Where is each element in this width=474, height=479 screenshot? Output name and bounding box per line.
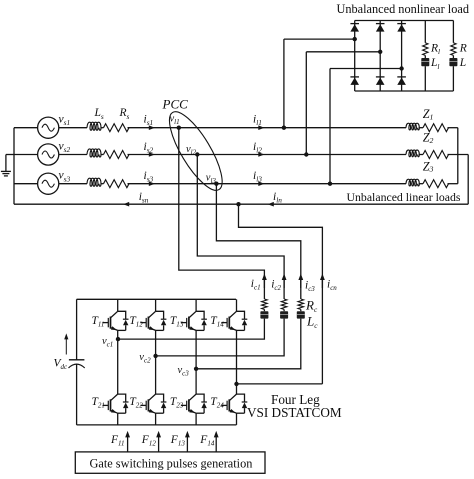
node tap c <box>328 182 332 186</box>
inductor Z1 coil <box>406 123 419 130</box>
wire phase a main <box>128 127 407 129</box>
svg-text:Gate switching pulses generati: Gate switching pulses generation <box>90 457 253 471</box>
wire icn branch to leg4 <box>237 383 323 385</box>
resistor Rc <box>262 299 268 309</box>
arrow F14 <box>215 433 217 452</box>
arrow il3 <box>258 181 264 186</box>
arrow is3 <box>149 181 155 186</box>
arrow ic2 <box>283 276 285 289</box>
resistor Z2 <box>423 151 449 159</box>
wire leg2 mid2 <box>155 356 157 394</box>
wire leg2 top <box>155 299 157 311</box>
diode D1b <box>350 76 359 78</box>
transistor T13 <box>181 311 207 330</box>
svg-text:PCC: PCC <box>162 97 189 112</box>
node tap a <box>282 126 286 130</box>
wire vl3 to ic3 branch <box>216 184 300 299</box>
transistor T21 <box>103 394 129 413</box>
wire neutral main <box>14 203 468 205</box>
arrow F11 <box>127 433 129 452</box>
wire RL branch at x=453.4 <box>452 21 454 43</box>
inductor Ls phase c <box>87 178 101 186</box>
wire bridge top rail <box>355 20 454 22</box>
arrow F13 <box>186 433 188 452</box>
arrow Vdc <box>64 333 68 354</box>
diode D3t <box>397 23 406 25</box>
wire leg4 mid <box>236 330 238 384</box>
svg-text:R: R <box>459 43 467 55</box>
wire dc bus lower <box>76 364 78 425</box>
inductor Lc <box>297 311 305 318</box>
resistor Rs phase c <box>104 180 130 188</box>
resistor Rs phase a <box>104 124 130 132</box>
svg-text:Unbalanced nonlinear load: Unbalanced nonlinear load <box>337 2 469 16</box>
wire bridge leg 2 <box>379 21 381 92</box>
wire leg1 top <box>117 299 119 311</box>
wire tap phase a to bridge <box>284 39 355 128</box>
wire phase c source feed <box>14 183 38 185</box>
wire Ls to Rs phase b <box>101 154 104 156</box>
arrow F12 <box>158 433 160 452</box>
wire vsi bottom rail <box>77 424 237 426</box>
node vc2 <box>153 354 157 358</box>
svg-text:Unbalanced linear loads: Unbalanced linear loads <box>347 190 461 204</box>
diode D2b <box>376 76 385 78</box>
inductor Z2 coil <box>406 150 419 157</box>
resistor Rc <box>281 299 287 309</box>
node tap b <box>304 152 308 156</box>
wire leg4 bottom <box>236 413 238 425</box>
diode D3b <box>397 76 406 78</box>
wire ic3 branch to vc3 <box>196 319 301 369</box>
wire RL branch bottom at x=425.3 <box>424 66 426 91</box>
wire leg3 mid <box>195 330 197 368</box>
node vl2 <box>195 152 199 156</box>
wire Z1 mid <box>419 127 423 129</box>
capacitor Cdc <box>69 360 85 368</box>
inductor L nonlinear load <box>449 58 457 66</box>
wire source b to Ls <box>59 154 87 156</box>
node bridge leg 3 <box>399 66 403 70</box>
ac source Vs1 <box>38 117 59 138</box>
wire source a to Ls <box>59 127 87 129</box>
node vl3 <box>214 182 218 186</box>
wire leg3 top <box>195 299 197 311</box>
wire source c to Ls <box>59 183 87 185</box>
wire bridge leg 1 <box>354 21 356 92</box>
wire leg1 mid <box>117 330 119 339</box>
resistor Z1 <box>423 124 449 132</box>
arrow ic3 <box>300 276 302 289</box>
arrow il1 <box>258 125 264 130</box>
node bridge leg 1 <box>353 37 357 41</box>
wire Z1 to right bus <box>448 127 458 129</box>
wire leg1 bottom <box>117 413 119 425</box>
ac source Vs2 <box>38 144 59 165</box>
wire ic1 branch to vc1 <box>118 319 264 340</box>
wire bridge leg 3 <box>401 21 403 92</box>
resistor Z3 <box>423 180 449 188</box>
wire leg2 bottom <box>155 413 157 425</box>
node leg4 neutral <box>234 382 238 386</box>
wire right bus Z1-Z3 <box>457 128 459 184</box>
node neutral to icn <box>236 202 240 206</box>
svg-text:L: L <box>459 57 466 69</box>
wire Z2 mid <box>419 154 423 156</box>
resistor Rs phase b <box>104 151 130 159</box>
wire dc bus upper <box>76 299 78 359</box>
arrow is1 <box>149 125 155 130</box>
svg-text:VSI DSTATCOM: VSI DSTATCOM <box>247 405 342 420</box>
wire Z2 to outer right bus <box>448 154 469 156</box>
wire tap phase b to bridge <box>306 52 380 155</box>
wire vl1 to ic1 branch <box>179 128 265 299</box>
wire RL branch bottom at x=453.4 <box>452 66 454 91</box>
wire neutral to icn branch <box>239 204 323 384</box>
wire left bus <box>13 128 15 205</box>
wire tap phase c to bridge <box>330 69 402 184</box>
wire phase c main <box>128 183 407 185</box>
transistor T12 <box>140 311 166 330</box>
arrow icn <box>321 276 323 289</box>
arrow is2 <box>149 152 155 157</box>
diode D2t <box>376 23 385 25</box>
transistor T23 <box>181 394 207 413</box>
node bridge leg 2 <box>378 50 382 54</box>
wire vl2 to ic2 branch <box>197 155 284 300</box>
wire Ls to Rs phase a <box>101 127 104 129</box>
inductor Lc <box>260 311 268 318</box>
ground <box>1 155 14 176</box>
arrow isn <box>123 202 129 207</box>
wire ic2 branch to vc2 <box>156 319 285 356</box>
wire Z3 mid <box>419 183 423 185</box>
wire Ls to Rs phase c <box>101 183 104 185</box>
inductor Ls phase b <box>87 149 101 157</box>
wire leg4 top <box>236 299 238 311</box>
transistor T24 <box>221 394 247 413</box>
wire phase b main <box>128 154 407 156</box>
node vc3 <box>194 367 198 371</box>
diode D1t <box>350 23 359 25</box>
wire outer right bus to neutral <box>467 155 469 205</box>
arrow ic1 <box>263 276 265 289</box>
node vc1 <box>116 337 120 341</box>
wire phase a source feed <box>14 127 38 129</box>
resistor Rl nonlinear load <box>423 43 428 56</box>
ac source Vs3 <box>38 173 59 194</box>
wire RL branch at x=425.3 <box>424 21 426 43</box>
PCC ellipse <box>160 105 231 197</box>
inductor Z3 coil <box>406 179 419 186</box>
wire phase b source feed <box>14 154 38 156</box>
wire bridge bottom rail <box>355 90 454 92</box>
transistor T11 <box>103 311 129 330</box>
inductor Ll nonlinear load <box>421 58 429 66</box>
arrow il2 <box>258 152 264 157</box>
resistor Rc <box>298 299 304 309</box>
gate pulses box <box>75 452 265 473</box>
wire leg4 mid2 <box>236 384 238 394</box>
wire leg3 bottom <box>195 413 197 425</box>
transistor T14 <box>221 311 247 330</box>
wire Z3 to right bus <box>448 183 458 185</box>
inductor Ls phase a <box>87 122 101 130</box>
inductor Lc <box>280 311 288 318</box>
arrow iln <box>268 202 274 207</box>
wire leg1 mid2 <box>117 339 119 394</box>
wire leg3 mid2 <box>195 369 197 394</box>
wire vsi top rail <box>77 298 236 300</box>
resistor R nonlinear load <box>451 43 456 56</box>
transistor T22 <box>140 394 166 413</box>
node vl1 <box>177 126 181 130</box>
wire leg2 mid <box>155 330 157 356</box>
